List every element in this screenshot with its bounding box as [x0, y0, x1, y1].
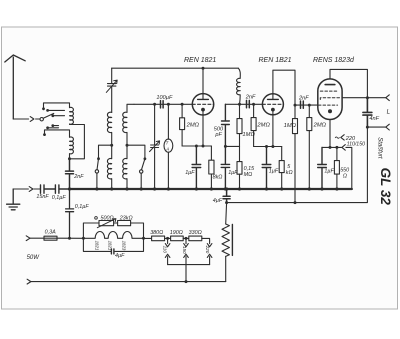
node grid row dot a — [153, 103, 156, 106]
capacitor 0.1uF input — [55, 185, 69, 193]
resistor 2M grid leak tube3 — [308, 105, 310, 118]
node filament box right — [142, 237, 145, 240]
inductor L2a lower section — [107, 145, 111, 189]
capacitor 1uF tube2 cathode — [262, 147, 271, 190]
svg-text:500Ω: 500Ω — [101, 216, 114, 222]
svg-text:15nF: 15nF — [36, 194, 49, 200]
capacitor 2nF coupling 1 — [247, 100, 250, 107]
svg-text:REN 1821: REN 1821 — [184, 57, 216, 64]
svg-text:1µF: 1µF — [185, 170, 195, 176]
svg-text:100µF: 100µF — [156, 95, 173, 101]
svg-text:4µF: 4µF — [115, 253, 125, 259]
node grid tube3 — [308, 104, 311, 107]
svg-text:Staßfurt: Staßfurt — [377, 137, 383, 159]
resistor 550 ohm — [336, 147, 338, 160]
connector mains 220 — [341, 135, 344, 140]
wire cathode tube3 — [329, 120, 331, 148]
wire tap to switch S2 — [99, 145, 112, 158]
svg-text:8kΩ: 8kΩ — [213, 175, 223, 181]
inductor L2a tuned coil left — [107, 112, 111, 145]
node rail2 a — [265, 145, 268, 148]
potentiometer 500 ohm — [99, 221, 114, 226]
resistor 5k tube2 — [281, 147, 283, 161]
svg-text:23kΩ: 23kΩ — [119, 216, 133, 222]
node output upper — [366, 96, 369, 99]
node heater line junction — [68, 237, 71, 240]
wire tap c — [48, 127, 59, 129]
node S2 contact — [97, 157, 100, 160]
svg-text:220: 220 — [205, 245, 210, 254]
svg-text:2MΩ: 2MΩ — [256, 123, 270, 129]
connector tap 150 — [184, 240, 189, 265]
svg-text:4µF: 4µF — [213, 198, 223, 204]
svg-text:Ω: Ω — [343, 173, 347, 179]
capacitor 1uF tube1 cathode — [192, 146, 201, 189]
node detector node A — [224, 145, 227, 148]
wire anode tube1 — [202, 68, 204, 99]
heater filaments 1821 1821 1823 — [83, 232, 143, 239]
svg-text:MΩ: MΩ — [244, 172, 253, 178]
node grid row dot b — [167, 103, 170, 106]
wire tap d — [53, 125, 59, 127]
svg-text:2nF: 2nF — [298, 96, 309, 102]
svg-text:2nF: 2nF — [73, 174, 84, 180]
resistor 2M grid leak tube2 — [253, 104, 255, 117]
svg-text:RENS 1823d: RENS 1823d — [313, 57, 355, 64]
wire antenna to switch — [13, 118, 40, 120]
node grid tube2 — [252, 103, 255, 106]
wire cathode tube1 — [202, 110, 204, 146]
svg-text:A: A — [165, 146, 169, 151]
node rail3 b — [335, 146, 338, 149]
resistor 330 ohm — [189, 236, 202, 241]
node cathode rail b — [202, 145, 205, 148]
svg-text:4nF: 4nF — [369, 116, 379, 122]
lamp TA ballast — [167, 104, 169, 189]
capacitor 2nF antenna coil — [66, 159, 74, 189]
wire cathode rail tube2 — [254, 146, 282, 148]
capacitor 4uF heater — [111, 249, 114, 254]
wire node A link — [225, 145, 239, 147]
svg-text:1821: 1821 — [107, 241, 112, 251]
svg-text:T: T — [166, 140, 169, 145]
switch S3 — [141, 159, 145, 170]
connector tap 110 — [165, 240, 170, 265]
node B+ junction — [225, 201, 228, 204]
svg-text:50W: 50W — [27, 255, 41, 261]
resistor 0.15M — [239, 146, 241, 161]
node filament box left — [82, 237, 85, 240]
resistor 1M detector load — [239, 104, 241, 118]
inductor L2b tuned coil right — [123, 104, 134, 145]
svg-text:150: 150 — [182, 246, 187, 254]
op-amp triode V1 REN1821 — [192, 94, 213, 115]
capacitor 500pF — [222, 104, 230, 146]
resistor 1M anode load tube2 — [293, 119, 298, 134]
svg-text:330Ω: 330Ω — [189, 230, 202, 236]
wire screen to output — [342, 97, 367, 99]
wire to terminal upper — [367, 97, 385, 99]
switch S1 wave-change — [40, 118, 43, 121]
svg-text:1MΩ: 1MΩ — [242, 132, 255, 138]
switch S2 — [97, 159, 99, 170]
inductor L1b antenna coil lower — [70, 137, 74, 159]
wire cathode rail tube3 — [322, 147, 352, 189]
wire antenna input row — [13, 188, 40, 190]
resistor 23k — [118, 221, 131, 226]
inductor L1a antenna coil upper — [70, 107, 74, 124]
connector speaker terminal lower — [386, 124, 390, 130]
wire S3 to bus — [140, 173, 142, 189]
svg-text:2MΩ: 2MΩ — [313, 123, 327, 129]
node bracket2 end — [43, 133, 46, 136]
svg-text:110/150: 110/150 — [347, 142, 365, 148]
svg-text:1MΩ: 1MΩ — [284, 123, 297, 129]
node rail3 a — [329, 146, 332, 149]
wire contact b to coil — [53, 115, 65, 117]
capacitor C2 trimmer regeneration — [151, 104, 159, 189]
node takeoff tube2 anode — [294, 104, 297, 107]
wire tap link — [168, 265, 210, 282]
wire grid row tube3 — [295, 104, 318, 106]
svg-text:REN 1B21: REN 1B21 — [259, 57, 292, 64]
node tap 110 — [166, 237, 169, 240]
inductor L2b lower section — [123, 145, 127, 189]
capacitor 15nF — [41, 185, 56, 193]
node bus dots — [68, 187, 71, 190]
wire top bracket of antenna coil — [44, 103, 70, 109]
capacitor 100uF grid — [161, 101, 164, 108]
resistor 380 ohm — [152, 236, 165, 241]
node anode junction — [202, 67, 205, 70]
svg-text:0,3A: 0,3A — [45, 229, 56, 235]
svg-text:1µF: 1µF — [324, 168, 334, 174]
capacitor 2nF coupling 2 — [301, 101, 304, 108]
svg-text:1µF: 1µF — [228, 170, 238, 176]
svg-text:1823: 1823 — [122, 241, 127, 251]
node tap 150 — [185, 237, 188, 240]
capacitor 4nF output — [363, 98, 372, 127]
svg-text:1µF: 1µF — [269, 168, 279, 174]
wire contact a to coil — [48, 109, 65, 111]
capacitor 1uF tube3 cathode — [318, 147, 327, 189]
wire bottom mains rail — [31, 281, 226, 283]
node rail2 b — [271, 145, 274, 148]
connector tap 220 — [207, 241, 212, 265]
resistor ballast heater dropper — [225, 203, 228, 224]
connector input plug — [29, 187, 33, 192]
wire anode tube2 — [273, 70, 295, 118]
wire grid row tube2 — [225, 103, 262, 105]
wire fuse line — [30, 237, 83, 239]
node tap c — [46, 126, 49, 129]
svg-text:0,1µF: 0,1µF — [75, 204, 90, 210]
svg-text:L: L — [387, 109, 391, 116]
inductor RF choke — [237, 68, 241, 104]
svg-text:pF: pF — [214, 132, 222, 138]
node bottom rail junction — [185, 280, 188, 283]
capacitor 4uF smoothing — [225, 187, 228, 190]
svg-text:GL 32: GL 32 — [378, 168, 393, 206]
svg-text:2MΩ: 2MΩ — [186, 123, 200, 129]
connector antenna plug — [30, 117, 34, 122]
wire coil return right side — [70, 125, 85, 159]
node S1 contact a — [46, 109, 49, 112]
node cathode rail a — [195, 145, 198, 148]
wire top rail tube1 — [112, 67, 239, 69]
fuse 0.3A — [44, 236, 57, 240]
node grid row dot c — [181, 103, 184, 106]
svg-text:2nF: 2nF — [245, 95, 256, 101]
wire chassis bus — [70, 188, 352, 190]
op-amp triode V2 REN1821 — [262, 94, 283, 115]
capacitor 1uF node A — [221, 146, 229, 189]
wire S2 to bus — [96, 173, 98, 189]
ground — [7, 189, 20, 210]
svg-text:190Ω: 190Ω — [170, 230, 183, 236]
node choke junction — [238, 103, 241, 106]
wire to terminal lower — [367, 126, 385, 128]
svg-text:380Ω: 380Ω — [150, 230, 163, 236]
wire cathode tube2 — [272, 110, 274, 147]
resistor 2M grid leak tube1 — [181, 104, 183, 118]
wire middle bracket — [45, 130, 70, 137]
node S1 contact b — [51, 114, 54, 117]
antenna — [5, 55, 25, 119]
wire B+ return — [227, 127, 368, 203]
resistor 190 ohm — [171, 236, 184, 241]
node S3 contact — [144, 157, 147, 160]
svg-text:1821: 1821 — [94, 241, 99, 251]
svg-text:kΩ: kΩ — [286, 170, 293, 176]
node output lower — [366, 126, 369, 129]
wire to dropper chain — [144, 237, 152, 239]
connector mains 110/150 — [342, 145, 345, 151]
node L2b tap — [126, 144, 129, 147]
wire filament network frame — [83, 223, 143, 251]
capacitor C1 tuning variable — [108, 68, 116, 112]
wire cathode rail tube1 — [182, 145, 211, 147]
wire grid row tube1 — [134, 103, 192, 105]
connector bottom rail arrow — [27, 279, 31, 284]
connector speaker terminal upper — [386, 95, 390, 101]
wire anode tube3 top — [330, 69, 367, 97]
node antenna coil bottom — [68, 157, 71, 160]
svg-text:110: 110 — [163, 246, 168, 254]
node bracket end — [42, 107, 45, 110]
capacitor 0.1uF to heater line — [66, 189, 74, 238]
resistor 8k tube1 — [210, 146, 212, 160]
node tap d — [51, 124, 54, 127]
transistor pentode V3 RENS1823d — [318, 79, 342, 120]
connector mains input arrow — [26, 236, 30, 241]
svg-text:0,1µF: 0,1µF — [52, 195, 67, 201]
wire tap to switch S3 — [127, 145, 145, 158]
node L2a tap — [110, 144, 113, 147]
